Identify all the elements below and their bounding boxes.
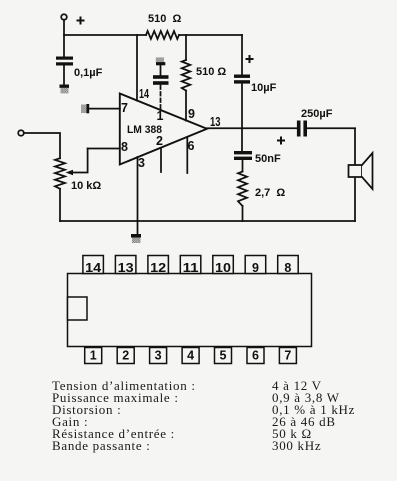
output wire 250uF to speaker <box>307 127 355 129</box>
pin6 stub <box>186 137 188 173</box>
plus sign supply <box>77 17 85 25</box>
potentiometer 10k zigzag <box>55 158 65 189</box>
pin box 13 <box>115 256 135 274</box>
svg-text:6: 6 <box>188 139 195 153</box>
output wire apex to 250uF <box>207 127 297 129</box>
pin box 9 <box>245 256 266 274</box>
wiper arrowhead <box>66 170 74 176</box>
svg-text:50nF: 50nF <box>255 153 281 165</box>
svg-text:8: 8 <box>284 261 291 275</box>
IC body <box>68 274 312 347</box>
pin2 stub <box>160 148 162 172</box>
svg-text:1: 1 <box>90 349 97 363</box>
svg-text:7: 7 <box>121 101 128 115</box>
svg-text:12: 12 <box>150 261 166 275</box>
250uF plates <box>297 121 301 137</box>
op-amp U1 triangle <box>120 94 207 165</box>
svg-text:2: 2 <box>156 134 163 148</box>
wire top rail left <box>64 34 146 36</box>
svg-text:10µF: 10µF <box>251 82 277 94</box>
pin box 12 <box>148 256 169 274</box>
svg-text:5: 5 <box>220 349 227 363</box>
plus sign 10uF <box>246 55 254 63</box>
svg-text:10 kΩ: 10 kΩ <box>71 180 101 192</box>
pin box 4 <box>182 348 199 364</box>
wire 0,1uF to ground <box>63 66 65 85</box>
svg-text:10: 10 <box>215 261 231 275</box>
input terminal <box>18 130 24 136</box>
svg-text:510 Ω: 510 Ω <box>196 66 226 78</box>
svg-text:9: 9 <box>188 107 195 121</box>
svg-text:3: 3 <box>155 349 162 363</box>
50nF plates <box>234 151 252 154</box>
pin box 10 <box>213 256 234 274</box>
bypass cap plates <box>153 75 169 79</box>
pin box 2 <box>117 348 134 364</box>
notch <box>68 297 88 320</box>
svg-text:6: 6 <box>252 349 259 363</box>
svg-text:1: 1 <box>157 109 164 123</box>
capacitor C1 0,1uF plates <box>56 57 73 60</box>
wire pin7 <box>89 108 120 110</box>
svg-text:4: 4 <box>187 349 194 363</box>
wire input to pot <box>24 133 60 158</box>
svg-text:14: 14 <box>85 261 101 275</box>
svg-text:250µF: 250µF <box>301 108 333 120</box>
pin box 14 <box>83 256 104 274</box>
IC package DIP-14 <box>68 256 312 364</box>
svg-text:3: 3 <box>138 156 145 170</box>
ground symbol under C1 <box>60 85 70 88</box>
svg-text:14: 14 <box>139 87 149 101</box>
pin3 ground <box>131 234 141 238</box>
wire pin8 <box>88 148 120 150</box>
2,7 bottom lead <box>242 206 244 221</box>
pin box 11 <box>180 256 201 274</box>
svg-text:0,1µF: 0,1µF <box>74 67 103 79</box>
speaker cone <box>362 153 373 189</box>
10uF plates <box>234 75 250 78</box>
plus sign 250uF <box>277 137 285 145</box>
wire 10uF bottom through output node to 50nF <box>241 84 243 152</box>
supply terminal <box>61 14 67 20</box>
pin7 ground: bar + hatch <box>86 104 89 113</box>
resistor R1 510 horizontal <box>146 31 179 39</box>
wire supply down to cap <box>63 20 65 57</box>
pin box 8 <box>278 256 299 274</box>
svg-text:9: 9 <box>252 261 259 275</box>
svg-text:8: 8 <box>121 140 128 154</box>
wire rail to 10uF <box>241 35 243 75</box>
wire 510 vertical top lead <box>185 35 187 60</box>
bottom bus <box>60 220 355 222</box>
speaker drop wire <box>354 128 356 165</box>
bypass hatch + bar (pin1 cap top) <box>156 57 164 62</box>
svg-text:2: 2 <box>122 349 129 363</box>
bypass cap stub wire <box>160 65 162 75</box>
pot bottom lead <box>59 189 61 221</box>
wiper riser <box>71 149 88 173</box>
svg-text:2,7 Ω: 2,7 Ω <box>255 187 285 199</box>
resistor R2 510 vertical <box>182 60 191 91</box>
speaker driver square <box>349 165 363 177</box>
wire 510 vertical bottom lead to pin9 <box>185 91 187 121</box>
speaker bottom wire <box>354 177 356 221</box>
pin box 7 <box>279 348 296 364</box>
pin3 wire down to ground <box>137 157 139 234</box>
pin box 5 <box>215 348 232 364</box>
pin box 3 <box>150 348 167 364</box>
svg-text:Bande passante :: Bande passante : <box>52 438 151 453</box>
svg-text:7: 7 <box>284 349 291 363</box>
resistor 2,7 zigzag <box>238 172 247 207</box>
svg-text:300 kHz: 300 kHz <box>272 438 321 453</box>
svg-text:510 Ω: 510 Ω <box>148 13 181 25</box>
pin box 6 <box>247 348 264 364</box>
50nF bottom lead <box>242 160 244 172</box>
wire top rail right <box>179 34 242 36</box>
wire pin14 <box>136 35 138 101</box>
pin box 1 <box>85 348 102 364</box>
svg-text:13: 13 <box>118 261 134 275</box>
svg-text:13: 13 <box>210 115 221 129</box>
dashed wire to pin 1 <box>160 86 162 111</box>
svg-text:11: 11 <box>183 261 199 275</box>
